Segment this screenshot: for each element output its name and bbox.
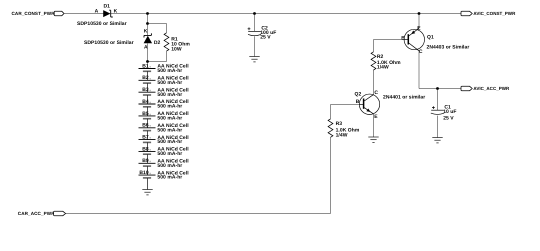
battery B2 AA NiCd cell (139, 75, 190, 86)
svg-text:Q2: Q2 (355, 92, 362, 98)
wire R2 top across to Q1 base (374, 40, 405, 52)
svg-text:10 uF: 10 uF (443, 109, 456, 115)
resistor R1 10 Ohm 10W (164, 33, 190, 53)
wire R1 bottom to junction (148, 51, 167, 61)
svg-text:500 mA-hr: 500 mA-hr (157, 139, 182, 145)
wire top rail left (port to D1 anode) (64, 13, 103, 15)
svg-text:AVIC_CONST_PWR: AVIC_CONST_PWR (473, 11, 516, 16)
svg-text:500 mA-hr: 500 mA-hr (157, 175, 182, 181)
svg-text:D2: D2 (154, 40, 161, 46)
junction node: Q1 emitter on rail (418, 12, 421, 15)
battery B8 AA NiCd cell (139, 146, 190, 157)
svg-text:500 mA-hr: 500 mA-hr (157, 92, 182, 98)
resistor R2 1.0K Ohm 1/4W (371, 52, 401, 71)
wire C1 top lead (437, 89, 439, 111)
junction node: rail to battery branch (146, 12, 149, 15)
svg-text:10W: 10W (171, 46, 182, 52)
wire B3 to B4 (147, 95, 149, 104)
wire B10 to ground (147, 178, 149, 189)
transistor Q1 2N4403 PNP (401, 25, 469, 54)
wire rail down to split (147, 14, 149, 24)
port CAR_ACC_PWR (18, 211, 66, 216)
wire Q2 emitter down to ground (373, 114, 375, 137)
battery B4 AA NiCd cell (139, 99, 190, 110)
wire split across to R1 top (148, 24, 167, 33)
svg-text:500 mA-hr: 500 mA-hr (157, 68, 182, 74)
svg-text:C: C (374, 90, 378, 96)
ground (C2) (249, 57, 259, 62)
wire B5 to B6 (147, 119, 149, 128)
svg-text:500 mA-hr: 500 mA-hr (157, 116, 182, 122)
wire C2 top lead (254, 14, 256, 32)
svg-text:B: B (401, 35, 405, 41)
wire B2 to B3 (147, 83, 149, 92)
svg-text:A: A (95, 9, 99, 15)
svg-text:K: K (144, 29, 148, 35)
svg-text:500 mA-hr: 500 mA-hr (157, 127, 182, 133)
svg-text:2N4401 or similar: 2N4401 or similar (383, 95, 425, 101)
diode D1 (SDP10530) (95, 3, 118, 17)
wire B4 to B5 (147, 107, 149, 116)
wire Q2 base across to R3 (331, 105, 360, 119)
ground (Q2 emitter) (368, 137, 378, 142)
svg-text:D1: D1 (104, 3, 111, 9)
svg-text:CAR_CONST_PWR: CAR_CONST_PWR (12, 11, 56, 16)
wire Q1 collector down and across to ACC line (419, 51, 461, 89)
resistor R3 1.0K Ohm 1/4W (328, 119, 360, 139)
battery B3 AA NiCd cell (139, 87, 190, 98)
svg-text:AVIC_ACC_PWR: AVIC_ACC_PWR (473, 86, 510, 91)
wire top rail right (D1 cathode to AVIC_CONST_PWR port) (111, 13, 461, 15)
wire C2 bottom lead (254, 36, 256, 56)
wire R2 bottom to Q2 collector (373, 70, 375, 95)
wire B8 to B9 (147, 154, 149, 163)
capacitor C1 10uF 25V (431, 105, 457, 122)
svg-text:C: C (419, 49, 423, 55)
svg-text:2N4403 or Similar: 2N4403 or Similar (427, 45, 470, 51)
svg-text:SDP10530 or Similar: SDP10530 or Similar (84, 40, 134, 46)
battery B7 AA NiCd cell (139, 135, 190, 146)
diode D2 (SDP10530) (144, 29, 161, 51)
junction node: C1 tap on ACC line (436, 87, 439, 90)
svg-text:25 V: 25 V (443, 115, 454, 121)
wire R3 bottom down and across to CAR_ACC_PWR port (66, 137, 331, 213)
wire B7 to B8 (147, 142, 149, 151)
svg-text:25 V: 25 V (260, 34, 271, 40)
junction node: D2 / R1 split (146, 22, 149, 25)
svg-text:Q1: Q1 (427, 34, 434, 40)
svg-text:CAR_ACC_PWR: CAR_ACC_PWR (18, 211, 55, 216)
battery B9 AA NiCd cell (139, 158, 190, 169)
port AVIC_CONST_PWR (461, 11, 516, 16)
battery B1 AA NiCd cell (139, 63, 190, 74)
ground (C1) (432, 138, 442, 143)
port CAR_CONST_PWR (12, 11, 65, 16)
svg-text:SDP10530 or Similar: SDP10530 or Similar (77, 21, 127, 27)
svg-text:500 mA-hr: 500 mA-hr (157, 80, 182, 86)
wire B9 to B10 (147, 166, 149, 175)
battery B10 AA NiCd cell (139, 170, 190, 181)
svg-text:E: E (374, 114, 378, 120)
wire C1 bottom lead (437, 116, 439, 138)
svg-text:1/4W: 1/4W (377, 65, 389, 71)
battery B6 AA NiCd cell (139, 123, 190, 134)
battery B5 AA NiCd cell (139, 111, 190, 122)
svg-text:R3: R3 (336, 121, 343, 127)
wire junction down to B1 (147, 62, 149, 69)
svg-text:500 mA-hr: 500 mA-hr (157, 104, 182, 110)
svg-text:500 mA-hr: 500 mA-hr (157, 151, 182, 157)
svg-text:500 mA-hr: 500 mA-hr (157, 163, 182, 169)
junction node: C2 tap on rail (253, 12, 256, 15)
wire Q1 emitter up to rail (418, 14, 420, 29)
transistor Q2 2N4401 NPN (355, 90, 426, 120)
wire B6 to B7 (147, 131, 149, 140)
port AVIC_ACC_PWR (461, 86, 510, 91)
ground (battery stack) (142, 190, 152, 195)
wire B1 to B2 (147, 71, 149, 80)
svg-text:1/4W: 1/4W (336, 133, 348, 139)
wire D2 anode down to junction (147, 43, 149, 61)
wire split down to D2 cathode (147, 24, 149, 36)
capacitor C2 100uF 25V (248, 26, 277, 41)
svg-text:K: K (114, 9, 118, 15)
junction node: D2/R1 join above battery (146, 60, 149, 63)
